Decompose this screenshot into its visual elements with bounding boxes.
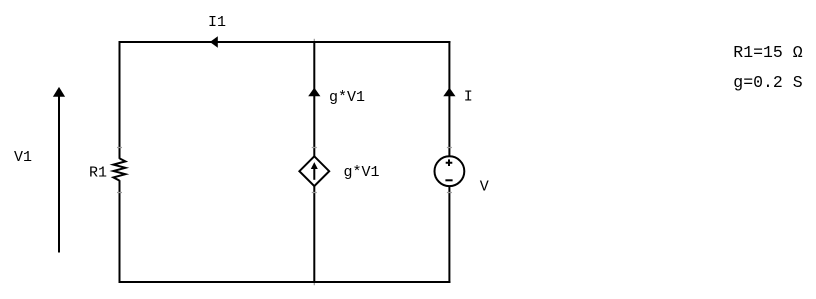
svg-text:V1: V1 <box>14 149 32 166</box>
terminal tick dependent source bottom pin <box>312 192 317 194</box>
svg-text:g*V1: g*V1 <box>344 164 380 181</box>
svg-text:R1: R1 <box>89 164 107 181</box>
annotation arrow V1 shaft (left side) <box>58 96 60 253</box>
arrowhead of annotation V1 (pointing up) <box>53 87 65 97</box>
dependent source internal arrow shaft <box>313 166 315 180</box>
wire right lower (voltage source V to bottom wire) <box>448 186 450 283</box>
svg-text:I1: I1 <box>208 14 226 31</box>
node stub at top T-junction <box>313 39 315 41</box>
terminal tick resistor R1 bottom pin <box>117 192 122 194</box>
wire left lower (resistor R1 to bottom wire) <box>119 180 121 283</box>
node stub at bottom T-junction <box>313 283 315 285</box>
terminal tick voltage source V bottom pin <box>447 192 452 194</box>
resistor R1 <box>113 158 125 180</box>
arrowhead inside dependent source diamond <box>311 162 318 169</box>
svg-text:V: V <box>480 178 489 195</box>
svg-text:g*V1: g*V1 <box>329 89 365 106</box>
wire bottom (return node) <box>119 281 451 283</box>
wire middle upper (top wire to dependent source) <box>313 41 315 157</box>
voltage source V (circle) <box>435 156 465 186</box>
terminal tick dependent source top pin <box>312 147 317 149</box>
svg-text:I: I <box>464 88 473 105</box>
arrowhead of current g*V1 on middle branch (pointing up) <box>308 88 320 97</box>
voltage source plus sign <box>446 159 453 166</box>
svg-text:g=0.2 S: g=0.2 S <box>733 73 802 92</box>
arrowhead of current I1 on top wire (pointing left) <box>210 36 218 48</box>
svg-text:R1=15 Ω: R1=15 Ω <box>733 43 802 62</box>
voltage source minus sign <box>445 179 452 181</box>
wire left upper (top wire to resistor R1) <box>119 41 121 159</box>
wire top (node between R1, g*V1 source and V) <box>119 41 451 43</box>
terminal tick resistor R1 top pin <box>117 147 122 149</box>
wire right upper (top wire to voltage source V) <box>448 41 450 156</box>
dependent current source g*V1 (diamond) <box>299 156 329 186</box>
arrowhead of current I on right branch (pointing up) <box>443 88 455 97</box>
terminal tick voltage source V top pin <box>447 147 452 149</box>
wire middle lower (dependent source to bottom wire) <box>313 186 315 283</box>
